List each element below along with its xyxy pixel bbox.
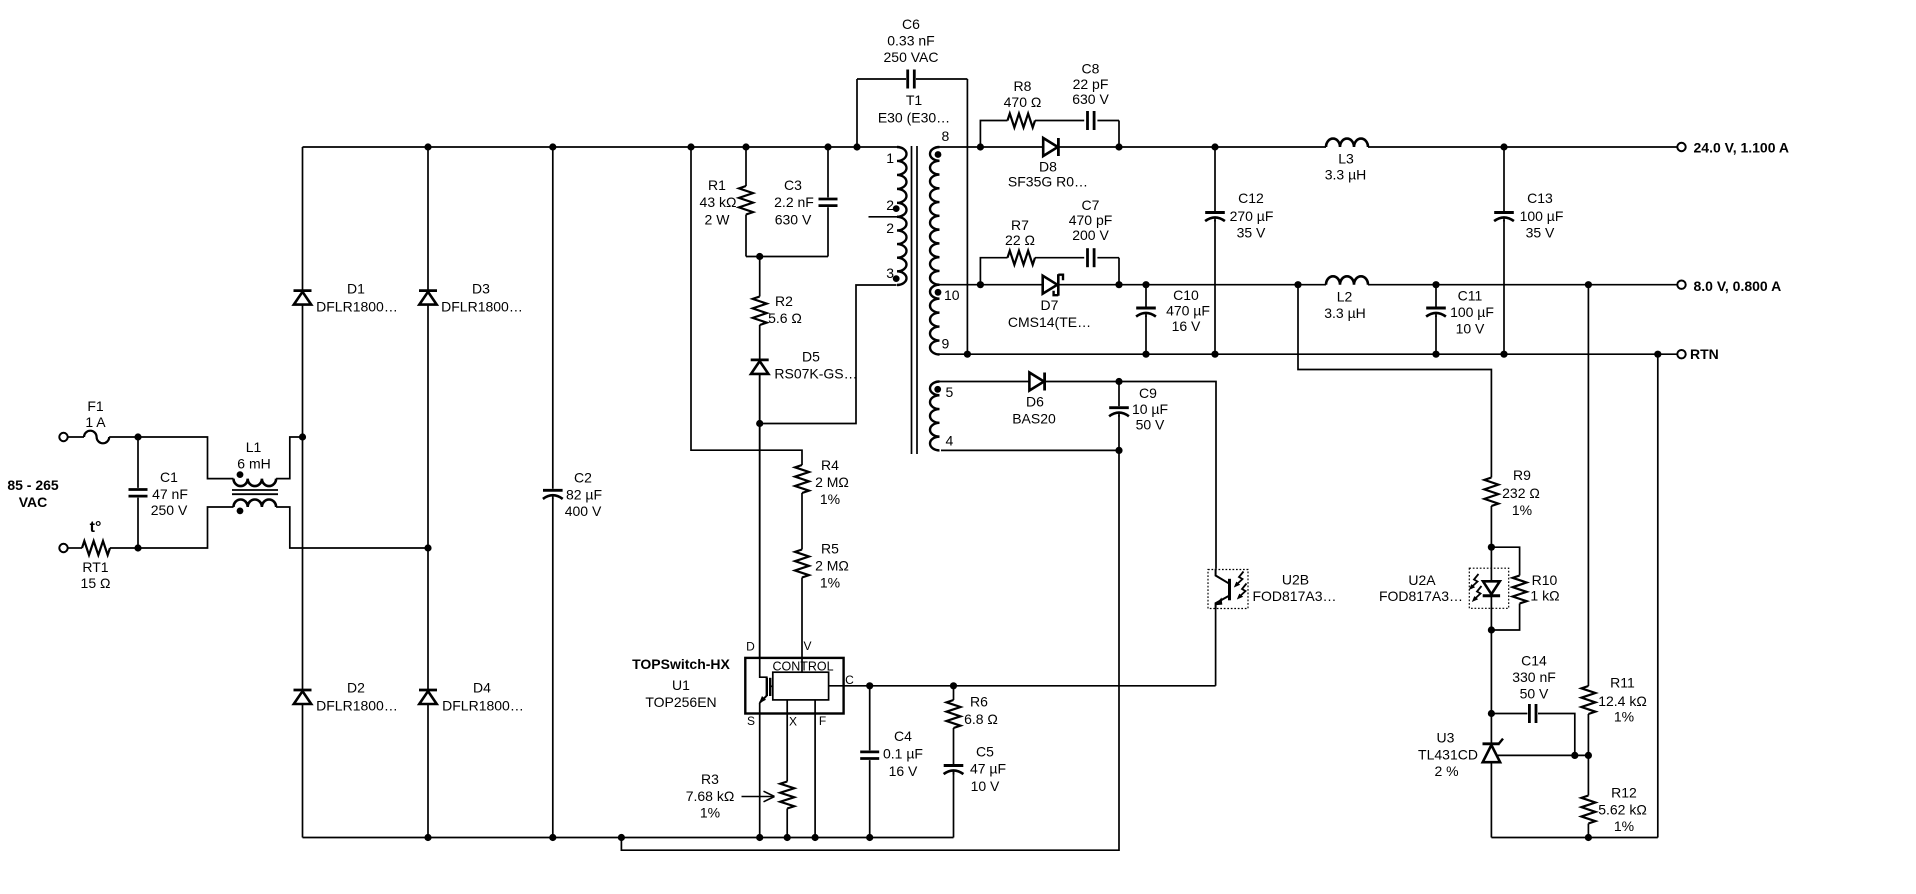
svg-text:C13: C13 — [1527, 190, 1553, 206]
wire L1 top out — [276, 437, 302, 479]
junction bias C9 — [1115, 378, 1122, 385]
svg-text:10 V: 10 V — [971, 778, 1000, 794]
svg-text:C1: C1 — [160, 469, 178, 485]
svg-text:TOP256EN: TOP256EN — [645, 694, 716, 710]
svg-text:D3: D3 — [472, 281, 490, 297]
label U1 pin C — [845, 673, 854, 687]
wire U1 S pin — [759, 714, 761, 838]
svg-text:630 V: 630 V — [775, 212, 812, 228]
junction C pin C4 — [866, 682, 873, 689]
wire feedback bottom — [1491, 837, 1657, 839]
svg-text:5: 5 — [946, 384, 954, 400]
svg-text:D7: D7 — [1041, 297, 1059, 313]
svg-text:8.0 V, 0.800 A: 8.0 V, 0.800 A — [1694, 278, 1782, 294]
U2B light arrows — [1234, 572, 1247, 600]
svg-text:7.68 kΩ: 7.68 kΩ — [686, 788, 735, 804]
L1 phase dot top — [237, 471, 244, 478]
svg-text:100 µF: 100 µF — [1520, 208, 1564, 224]
svg-text:1%: 1% — [1614, 709, 1634, 725]
junction top rail R1 — [742, 143, 749, 150]
wire LED to C14 node — [1490, 596, 1492, 714]
svg-text:1 kΩ: 1 kΩ — [1530, 588, 1559, 604]
svg-text:L1: L1 — [246, 439, 262, 455]
svg-text:U2B: U2B — [1282, 572, 1309, 588]
wire U1 F pin — [814, 700, 816, 838]
label U2B — [1252, 572, 1336, 604]
U1 V pin internal lead — [801, 658, 803, 672]
T1 secondary winding upper — [930, 147, 940, 285]
capacitor C2 — [541, 147, 565, 838]
svg-text:6.8 Ω: 6.8 Ω — [964, 711, 998, 727]
T1 phase dot pin5 — [934, 386, 941, 393]
svg-text:43 kΩ: 43 kΩ — [700, 194, 737, 210]
diode D4 — [419, 690, 437, 704]
svg-text:2: 2 — [886, 197, 894, 213]
T1 pin9 label — [942, 336, 950, 352]
junction snubber7 left — [977, 281, 984, 288]
svg-text:D6: D6 — [1026, 394, 1044, 410]
svg-text:0.33 nF: 0.33 nF — [887, 33, 934, 49]
label C12 — [1230, 190, 1274, 241]
fuse F1 — [84, 431, 109, 444]
label RT1 — [81, 559, 111, 591]
svg-text:1 A: 1 A — [85, 414, 106, 430]
label t deg — [90, 519, 102, 536]
svg-text:1: 1 — [886, 150, 894, 166]
svg-text:R6: R6 — [970, 694, 988, 710]
resistor R3 — [780, 782, 794, 838]
svg-text:22 pF: 22 pF — [1073, 76, 1109, 92]
svg-text:24.0 V, 1.100 A: 24.0 V, 1.100 A — [1694, 140, 1789, 156]
U2B transistor — [1215, 569, 1230, 609]
wire R9 to LED — [1490, 547, 1492, 581]
label U1 pin S — [747, 714, 755, 728]
svg-text:R7: R7 — [1011, 217, 1029, 233]
svg-text:85 - 265: 85 - 265 — [7, 477, 59, 493]
label R1 — [700, 177, 737, 228]
wire AC top — [68, 436, 138, 438]
svg-text:270 µF: 270 µF — [1230, 208, 1274, 224]
svg-text:330 nF: 330 nF — [1512, 669, 1556, 685]
svg-text:L3: L3 — [1338, 151, 1354, 167]
svg-text:100 µF: 100 µF — [1450, 304, 1494, 320]
capacitor C14 — [1491, 702, 1574, 756]
junction 24V C12 — [1211, 143, 1218, 150]
svg-text:250 VAC: 250 VAC — [884, 49, 939, 65]
label C6 — [884, 16, 939, 65]
T1 pin10 label — [944, 287, 960, 303]
label U3 — [1418, 730, 1478, 780]
transformer core — [912, 146, 918, 454]
label R8 — [1004, 78, 1042, 110]
wire R11 R12 mid — [1587, 755, 1589, 795]
label C8 — [1072, 61, 1109, 108]
junction bias return — [1115, 447, 1122, 454]
wire AC bottom — [68, 547, 138, 549]
diode D5 — [751, 360, 769, 374]
svg-text:R11: R11 — [1610, 675, 1635, 691]
wire L1 bottom out — [276, 507, 428, 548]
T1 pin1 label — [886, 150, 894, 166]
wire rail to R4 — [691, 147, 802, 465]
svg-text:R3: R3 — [701, 771, 719, 787]
resistor R7 — [1008, 251, 1036, 265]
resistor R1 — [739, 147, 753, 257]
svg-text:C10: C10 — [1173, 287, 1199, 303]
svg-text:VAC: VAC — [19, 494, 48, 510]
svg-text:630 V: 630 V — [1072, 91, 1109, 107]
label CONTROL — [772, 660, 833, 674]
label D8 — [1008, 159, 1088, 190]
U2B dashed box — [1208, 570, 1248, 609]
label C2 — [565, 470, 602, 520]
inductor L1 top winding — [234, 479, 277, 487]
diode D1 — [294, 291, 312, 305]
svg-text:47 nF: 47 nF — [152, 486, 188, 502]
U2A light arrows — [1469, 574, 1482, 602]
label U1 pin V — [803, 639, 811, 653]
T1 primary winding upper — [897, 147, 907, 217]
svg-text:R1: R1 — [708, 177, 726, 193]
junction 8V C10 — [1142, 281, 1149, 288]
label D1 — [316, 281, 398, 315]
junction bottom rail F — [812, 834, 819, 841]
inductor L1 bottom winding — [234, 500, 277, 508]
svg-text:232 Ω: 232 Ω — [1502, 485, 1540, 501]
wire 8V rail — [937, 284, 1677, 286]
junction feedback bottom R12 — [1585, 834, 1592, 841]
capacitor C12 — [1203, 147, 1227, 354]
svg-text:22 Ω: 22 Ω — [1005, 232, 1035, 248]
label RTN — [1690, 346, 1719, 362]
svg-text:3.3 µH: 3.3 µH — [1325, 167, 1367, 183]
wire D5 to drain — [759, 374, 761, 658]
label R2 — [768, 293, 802, 326]
svg-text:T1: T1 — [906, 92, 923, 108]
svg-text:E30 (E30…: E30 (E30… — [878, 110, 950, 126]
svg-text:1%: 1% — [1512, 502, 1532, 518]
svg-text:D: D — [746, 640, 755, 654]
junction C pin R6 — [950, 682, 957, 689]
terminal 24V — [1677, 143, 1685, 151]
wire AC top to L1 — [138, 437, 234, 479]
junction C1 top — [134, 433, 141, 440]
label TOPSwitch-HX — [632, 656, 730, 672]
wire clamp bottom — [746, 256, 828, 258]
label C5 — [970, 744, 1006, 795]
svg-text:F: F — [819, 714, 826, 728]
inductor L3 — [1326, 139, 1368, 147]
svg-text:8: 8 — [942, 128, 950, 144]
junction R9 bottom — [1488, 544, 1495, 551]
svg-text:SF35G R0…: SF35G R0… — [1008, 174, 1088, 190]
svg-text:V: V — [803, 639, 811, 653]
svg-text:DFLR1800…: DFLR1800… — [441, 299, 523, 315]
junction bottom rail stub — [618, 834, 625, 841]
svg-text:D8: D8 — [1039, 159, 1057, 175]
label U1 pin D — [746, 640, 755, 654]
wire D1 D2 column — [302, 147, 304, 838]
svg-text:CONTROL: CONTROL — [772, 660, 833, 674]
svg-text:BAS20: BAS20 — [1012, 411, 1056, 427]
wire 24V rail — [940, 146, 1678, 148]
svg-text:9: 9 — [942, 336, 950, 352]
svg-text:2 W: 2 W — [705, 212, 731, 228]
svg-text:4: 4 — [946, 433, 954, 449]
wire 8V to R9 — [1298, 285, 1491, 478]
wire TL431 cathode — [1490, 714, 1492, 744]
resistor R9 — [1484, 478, 1498, 548]
wire R5 to V pin — [801, 578, 803, 659]
IC U1 outer box — [745, 658, 843, 714]
diode D6 — [1029, 373, 1044, 391]
wire bias rail — [940, 382, 1217, 569]
resistor R10 — [1513, 576, 1527, 604]
svg-text:50 V: 50 V — [1136, 417, 1165, 433]
wire D3 D4 column — [427, 147, 429, 838]
junction RTN C12 — [1211, 351, 1218, 358]
resistor R8 — [1008, 114, 1036, 128]
junction C14 right — [1571, 752, 1578, 759]
label C14 — [1512, 653, 1556, 702]
junction RTN C13 — [1500, 351, 1507, 358]
wire R10 branch top — [1491, 547, 1519, 575]
T1 pin8 label — [942, 128, 950, 144]
svg-text:15 Ω: 15 Ω — [81, 575, 111, 591]
wire RTN rail — [937, 353, 1677, 355]
junction LED bottom — [1488, 626, 1495, 633]
wire bias return — [621, 450, 1119, 850]
wire C6 right column — [966, 79, 968, 354]
junction top rail C3 — [824, 143, 831, 150]
svg-text:1%: 1% — [1614, 818, 1634, 834]
svg-text:200 V: 200 V — [1072, 227, 1109, 243]
svg-text:t°: t° — [90, 519, 102, 536]
label R10 — [1530, 572, 1559, 604]
svg-text:C14: C14 — [1521, 653, 1547, 669]
capacitor C10 — [1134, 285, 1158, 355]
svg-text:S: S — [747, 714, 755, 728]
T1 pin4 label — [946, 433, 954, 449]
label C3 — [774, 177, 814, 228]
label L1 — [237, 439, 270, 472]
label F1 — [85, 398, 106, 430]
T1 pin2 label — [886, 197, 894, 213]
label R9 — [1502, 467, 1540, 518]
U1 mosfet gate bar — [769, 678, 771, 696]
junction C1 bottom — [134, 544, 141, 551]
svg-text:U1: U1 — [672, 677, 690, 693]
U1 mosfet gate lead — [770, 685, 773, 687]
svg-text:1%: 1% — [820, 491, 840, 507]
svg-text:RS07K-GS…: RS07K-GS… — [774, 366, 857, 382]
label U1 pin X — [789, 715, 797, 729]
label C7 — [1069, 197, 1113, 243]
diode D7 — [1043, 274, 1063, 296]
junction RTN C10 — [1142, 351, 1149, 358]
wire bias pin4 — [941, 449, 1119, 451]
junction bridge right input — [424, 544, 431, 551]
T1 pin5 label — [946, 384, 954, 400]
svg-text:35 V: 35 V — [1237, 225, 1266, 241]
junction 8V R11 — [1585, 281, 1592, 288]
label 24V output — [1694, 140, 1789, 156]
svg-text:1%: 1% — [700, 805, 720, 821]
snubber R7 C7 wires — [980, 258, 1119, 285]
label TOP256EN — [645, 694, 716, 710]
T1 phase dot pin8 — [935, 151, 942, 158]
wire top rail — [303, 146, 898, 148]
wire U1 D pin — [759, 374, 761, 677]
svg-text:D5: D5 — [802, 349, 820, 365]
svg-text:16 V: 16 V — [1172, 318, 1201, 334]
T1 primary tap wire — [869, 216, 898, 218]
junction bottom rail S — [756, 834, 763, 841]
svg-text:TOPSwitch-HX: TOPSwitch-HX — [632, 656, 730, 672]
svg-text:2.2 nF: 2.2 nF — [774, 194, 814, 210]
U1 mosfet drain lead — [760, 658, 767, 678]
svg-text:C12: C12 — [1238, 190, 1264, 206]
capacitor C9 — [1107, 382, 1131, 451]
svg-text:2 %: 2 % — [1434, 763, 1458, 779]
junction RTN C11 — [1432, 351, 1439, 358]
wire R4 to R5 — [801, 493, 803, 550]
junction bottom rail C4 — [866, 834, 873, 841]
L1 phase dot bottom — [237, 508, 244, 515]
svg-text:R10: R10 — [1532, 572, 1558, 588]
T1 primary winding lower — [897, 217, 907, 285]
wire TL431 ref — [1496, 754, 1588, 756]
capacitor C4 — [858, 686, 882, 838]
capacitor C8 — [1086, 109, 1096, 133]
resistor R6 — [947, 686, 961, 766]
U1 mosfet source lead — [759, 696, 767, 714]
junction 8V feedback jog — [1294, 281, 1301, 288]
label C9 — [1132, 385, 1168, 433]
U1 mosfet channel bar — [766, 678, 768, 696]
svg-text:C5: C5 — [976, 744, 994, 760]
junction drain node — [756, 420, 763, 427]
junction bottom rail D4 — [424, 834, 431, 841]
junction bottom rail X — [784, 834, 791, 841]
svg-text:DFLR1800…: DFLR1800… — [442, 698, 524, 714]
label R7 — [1005, 217, 1035, 248]
wire U1 C pin — [829, 609, 1216, 686]
capacitor C5 — [942, 764, 966, 838]
capacitor C1 — [126, 437, 150, 548]
label R3 — [686, 771, 735, 821]
T1 pin3 label — [886, 265, 894, 281]
label C1 — [151, 469, 188, 518]
svg-text:2 MΩ: 2 MΩ — [815, 558, 849, 574]
label U1 pin F — [819, 714, 826, 728]
wire return to RTN — [1657, 354, 1659, 837]
inductor L2 — [1326, 276, 1368, 284]
diode D8 — [1043, 138, 1058, 156]
L1 core — [232, 490, 278, 494]
svg-text:12.4 kΩ: 12.4 kΩ — [1598, 693, 1647, 709]
svg-text:RT1: RT1 — [82, 559, 108, 575]
svg-text:3.3 µH: 3.3 µH — [1324, 305, 1366, 321]
svg-text:250 V: 250 V — [151, 502, 188, 518]
svg-text:R4: R4 — [821, 457, 839, 473]
junction RTN return — [1654, 351, 1661, 358]
junction top rail D3 — [424, 143, 431, 150]
wire U1 X pin — [786, 700, 788, 782]
svg-text:CMS14(TE…: CMS14(TE… — [1008, 314, 1091, 330]
svg-text:L2: L2 — [1337, 289, 1353, 305]
T1 phase dot pin10 — [935, 289, 942, 296]
capacitor C11 — [1424, 285, 1448, 355]
svg-text:5.62 kΩ: 5.62 kΩ — [1598, 802, 1647, 818]
junction top rail R4 route — [687, 143, 694, 150]
svg-text:C: C — [845, 673, 854, 687]
label R6 — [964, 694, 998, 728]
svg-text:C8: C8 — [1082, 61, 1100, 77]
svg-text:TL431CD: TL431CD — [1418, 747, 1478, 763]
svg-text:47 µF: 47 µF — [970, 761, 1006, 777]
svg-text:RTN: RTN — [1690, 346, 1719, 362]
T1 phase dot pin3 — [893, 275, 900, 282]
label D2 — [316, 680, 398, 714]
junction snubber7 right — [1115, 281, 1122, 288]
U2A LED — [1483, 581, 1500, 596]
svg-text:D4: D4 — [473, 680, 491, 696]
svg-text:6 mH: 6 mH — [237, 456, 270, 472]
svg-text:0.1 µF: 0.1 µF — [883, 746, 923, 762]
label R4 — [815, 457, 849, 507]
svg-text:16 V: 16 V — [889, 763, 918, 779]
R3 arrow — [742, 791, 775, 802]
svg-text:DFLR1800…: DFLR1800… — [316, 299, 398, 315]
T1 bias winding — [930, 382, 940, 451]
junction 24V C13 — [1500, 143, 1507, 150]
junction clamp bottom — [756, 253, 763, 260]
svg-text:470 Ω: 470 Ω — [1004, 94, 1042, 110]
T1 phase dot pin2 — [893, 205, 900, 212]
svg-text:R2: R2 — [775, 293, 793, 309]
T1 secondary winding lower — [930, 285, 940, 355]
resistor R4 — [795, 465, 809, 493]
junction top rail C6 — [853, 143, 860, 150]
junction ref divider — [1585, 752, 1592, 759]
label C11 — [1450, 288, 1494, 337]
shunt regulator U3 TL431 — [1483, 739, 1504, 763]
label 8V output — [1694, 278, 1782, 294]
thermistor RT1 — [82, 541, 110, 555]
diode D2 — [294, 690, 312, 704]
capacitor C13 — [1492, 147, 1516, 354]
svg-text:D1: D1 — [347, 281, 365, 297]
label C4 — [883, 728, 923, 779]
svg-text:DFLR1800…: DFLR1800… — [316, 698, 398, 714]
capacitor C3 — [816, 147, 840, 257]
label 85-265 VAC — [7, 477, 59, 510]
wire R11 column top — [1587, 285, 1589, 686]
svg-text:10 V: 10 V — [1456, 321, 1485, 337]
svg-text:F1: F1 — [87, 398, 104, 414]
svg-text:C9: C9 — [1139, 385, 1157, 401]
label D3 — [441, 281, 523, 315]
wire R10 branch bottom — [1491, 604, 1519, 631]
svg-text:X: X — [789, 715, 797, 729]
svg-text:10 µF: 10 µF — [1132, 401, 1168, 417]
svg-text:82 µF: 82 µF — [566, 487, 602, 503]
label R11 — [1598, 675, 1647, 725]
U2A dashed box — [1469, 568, 1508, 608]
label C13 — [1520, 190, 1564, 241]
svg-text:C3: C3 — [784, 177, 802, 193]
